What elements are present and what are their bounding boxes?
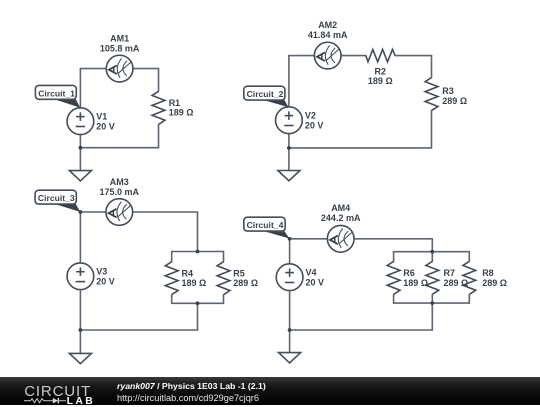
svg-text:V3: V3 — [96, 267, 107, 277]
svg-text:R4: R4 — [182, 268, 194, 278]
svg-text:AM3: AM3 — [110, 177, 129, 187]
svg-text:20 V: 20 V — [96, 276, 115, 286]
svg-text:175.0 mA: 175.0 mA — [100, 187, 140, 197]
svg-text:105.8 mA: 105.8 mA — [100, 43, 140, 53]
svg-text:AM1: AM1 — [110, 33, 129, 43]
svg-text:R1: R1 — [169, 98, 181, 108]
svg-text:289 Ω: 289 Ω — [482, 278, 507, 288]
svg-text:289 Ω: 289 Ω — [444, 278, 469, 288]
svg-text:289 Ω: 289 Ω — [233, 278, 258, 288]
svg-text:R8: R8 — [482, 268, 494, 278]
svg-text:Circuit_4: Circuit_4 — [247, 220, 284, 230]
svg-text:V4: V4 — [306, 267, 317, 277]
svg-text:Circuit_1: Circuit_1 — [38, 88, 75, 98]
svg-text:R6: R6 — [403, 268, 415, 278]
svg-text:Circuit_2: Circuit_2 — [247, 89, 284, 99]
svg-text:189 Ω: 189 Ω — [403, 278, 428, 288]
svg-text:189 Ω: 189 Ω — [169, 108, 194, 118]
svg-text:189 Ω: 189 Ω — [368, 76, 393, 86]
svg-text:AM4: AM4 — [331, 203, 350, 213]
svg-text:41.84 mA: 41.84 mA — [308, 30, 348, 40]
svg-text:Circuit_3: Circuit_3 — [38, 193, 75, 203]
svg-text:V1: V1 — [96, 111, 107, 121]
svg-text:244.2 mA: 244.2 mA — [321, 213, 361, 223]
svg-text:V2: V2 — [305, 110, 316, 120]
svg-text:20 V: 20 V — [305, 120, 324, 130]
svg-text:189 Ω: 189 Ω — [182, 278, 207, 288]
svg-text:R7: R7 — [444, 268, 456, 278]
svg-text:AM2: AM2 — [318, 20, 337, 30]
svg-text:20 V: 20 V — [306, 277, 325, 287]
svg-text:R2: R2 — [375, 66, 387, 76]
svg-text:289 Ω: 289 Ω — [442, 96, 467, 106]
svg-text:20 V: 20 V — [96, 121, 115, 131]
svg-text:R5: R5 — [233, 268, 245, 278]
svg-text:R3: R3 — [442, 86, 454, 96]
